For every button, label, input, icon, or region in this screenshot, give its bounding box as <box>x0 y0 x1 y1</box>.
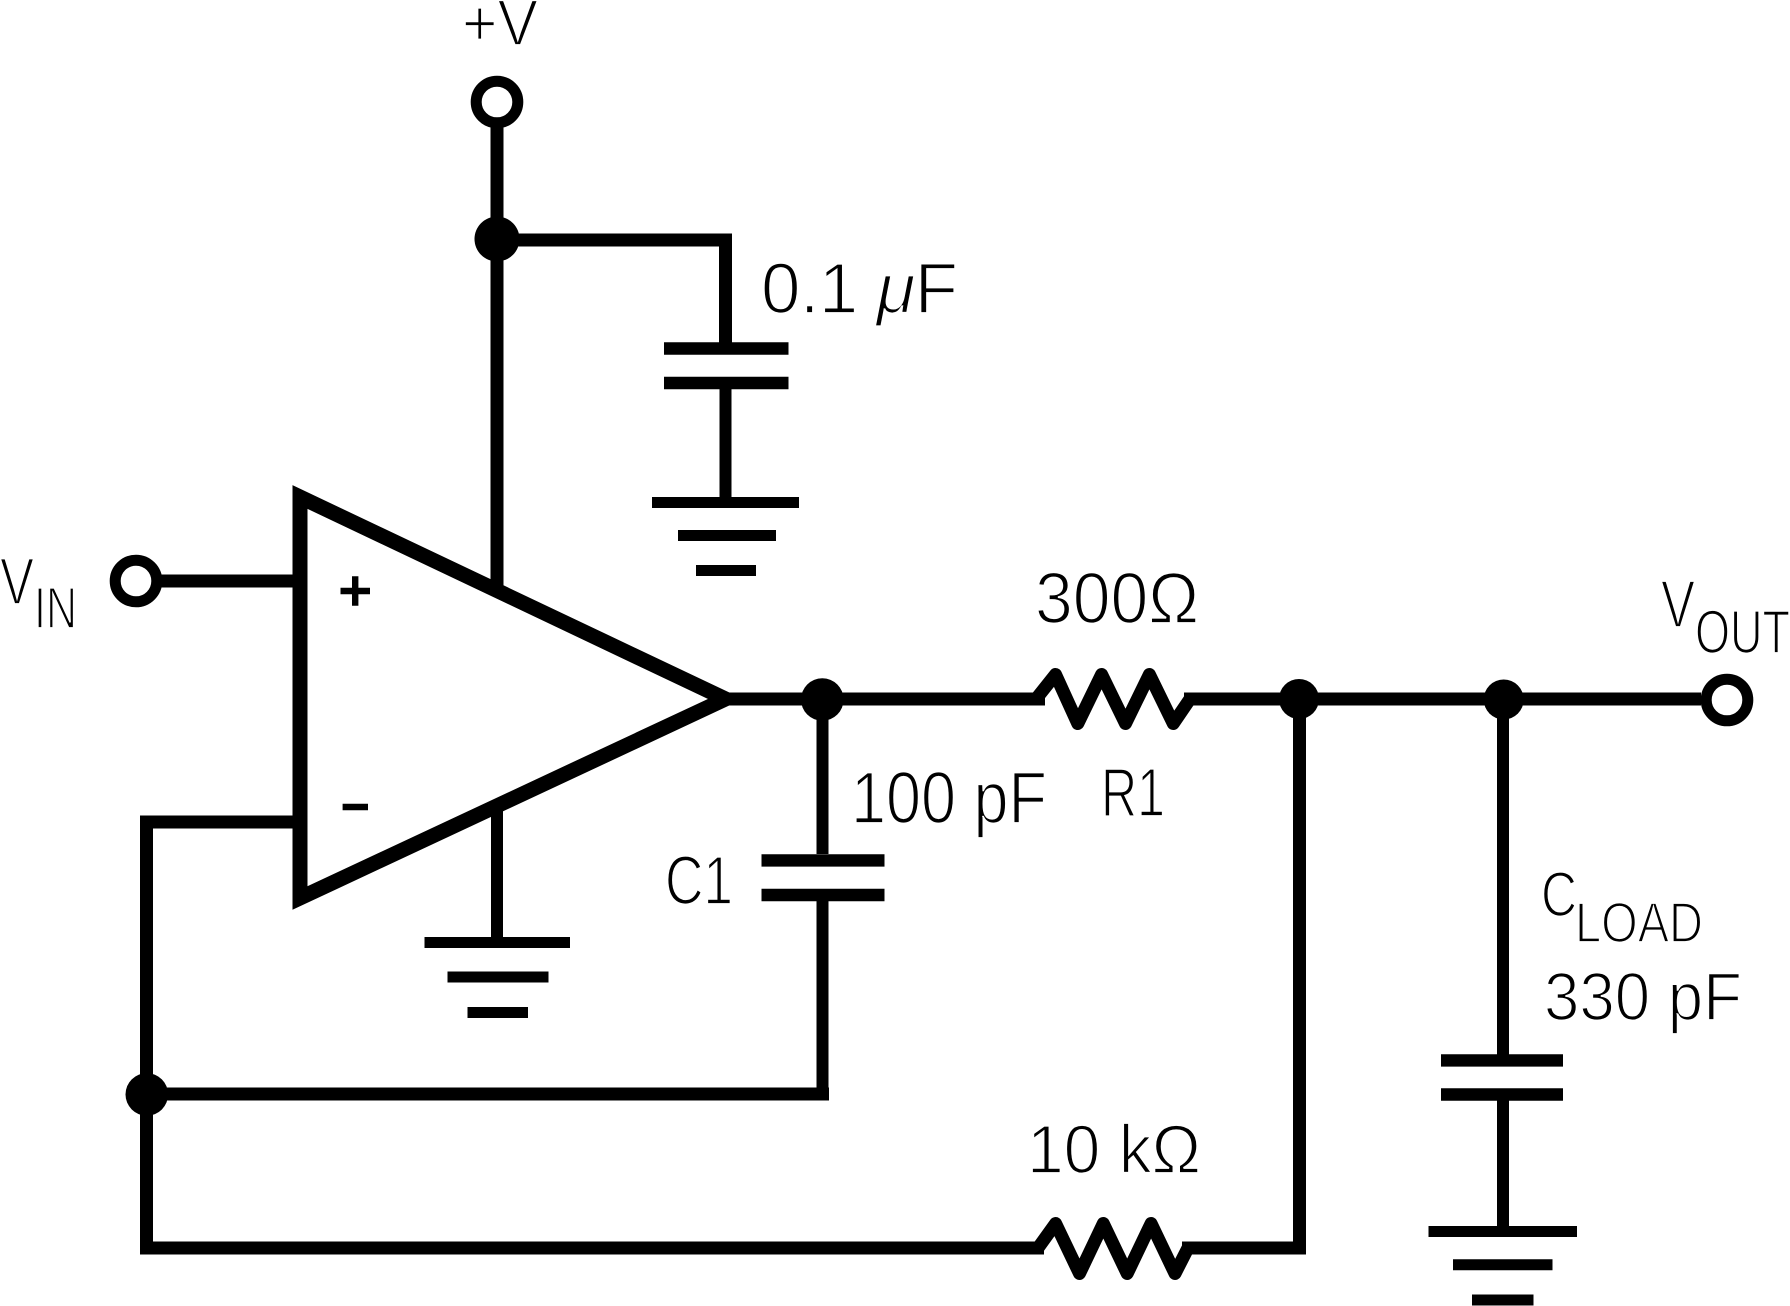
node supply junction <box>475 217 520 262</box>
CLOAD label <box>1541 860 1703 955</box>
wire inverting input <box>147 822 297 1248</box>
svg-text:330 pF: 330 pF <box>1544 959 1742 1035</box>
ground (load) <box>1429 1232 1578 1301</box>
VIN label <box>0 544 77 641</box>
node VOUT junction <box>1484 680 1524 720</box>
svg-text:C1: C1 <box>665 842 733 919</box>
capacitor 0.1uF <box>664 349 789 501</box>
svg-text:C: C <box>1541 860 1577 930</box>
ground (bypass cap) <box>652 503 799 571</box>
wire 10k to output branch <box>1182 1242 1306 1255</box>
svg-text:IN: IN <box>34 576 77 641</box>
svg-text:OUT: OUT <box>1695 598 1790 666</box>
svg-text:+V: +V <box>462 0 539 59</box>
wire op-amp ground stem <box>491 808 503 942</box>
resistor 10k <box>1038 1224 1188 1274</box>
svg-text:0.1 μF: 0.1 μF <box>761 250 958 329</box>
wire +V stem <box>491 123 504 589</box>
wire C1 to feedback node <box>147 1088 829 1101</box>
VOUT label <box>1661 568 1790 666</box>
node feedback junction <box>126 1073 169 1116</box>
capacitor CLOAD <box>1441 700 1563 1231</box>
node R1 output junction <box>1279 679 1319 719</box>
svg-text:300Ω: 300Ω <box>1035 559 1199 639</box>
svg-text:R1: R1 <box>1101 754 1165 831</box>
+V terminal <box>476 81 518 123</box>
op-amp + input symbol <box>341 576 371 606</box>
wire supply to bypass cap <box>497 240 726 352</box>
svg-text:10 kΩ: 10 kΩ <box>1027 1111 1201 1188</box>
VIN terminal <box>115 560 157 602</box>
op-amp - input symbol <box>343 804 368 810</box>
svg-text:LOAD: LOAD <box>1575 891 1703 955</box>
capacitor C1 <box>762 700 885 1094</box>
node output junction <box>801 678 844 721</box>
wire feedback bottom left <box>147 1242 1045 1249</box>
ground (op-amp) <box>425 943 571 1013</box>
svg-text:V: V <box>1661 568 1695 642</box>
svg-text:100 pF: 100 pF <box>851 758 1047 839</box>
resistor R1 <box>1036 675 1190 724</box>
svg-text:V: V <box>0 544 34 618</box>
wire op-amp output <box>728 693 1045 706</box>
VOUT terminal <box>1706 679 1748 721</box>
wire output node down to 10k <box>1293 699 1306 1242</box>
op-amp U1 <box>300 497 726 898</box>
wire VIN to noninverting input <box>157 575 296 588</box>
wire R1 to VOUT terminal <box>1184 693 1701 706</box>
